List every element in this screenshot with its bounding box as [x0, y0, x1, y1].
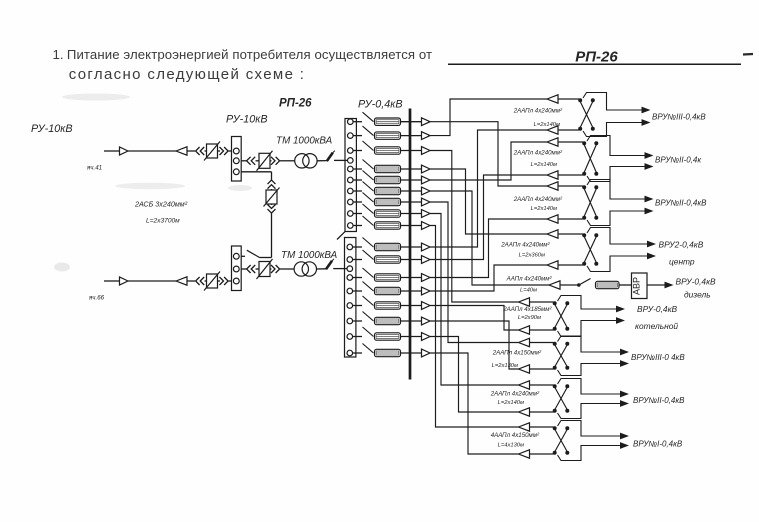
svg-text:РУ-10кВ: РУ-10кВ [31, 123, 73, 135]
label destination 11 [633, 396, 685, 405]
cable end group 4 lower [547, 261, 583, 269]
switch blade group 5 [577, 279, 591, 287]
wire fuse to АВР [619, 284, 632, 286]
arrow flow incoming 2 [120, 277, 129, 285]
svg-text:яч.41: яч.41 [86, 165, 102, 172]
node 0,4kV bus2 feeder 2 [347, 257, 353, 263]
label L=2х3700м [146, 218, 180, 225]
svg-text:2ААПл 4х240мм²: 2ААПл 4х240мм² [513, 108, 563, 115]
label ТМ 1000кВА (transformer T2) [281, 250, 338, 261]
label destination 8 [637, 304, 678, 314]
label cable spec 14 [492, 363, 518, 369]
svg-text:2АСБ 3х240мм²: 2АСБ 3х240мм² [134, 200, 188, 209]
svg-text:ААПл 4х240мм²: ААПл 4х240мм² [506, 276, 553, 283]
node bus1 pin1 [233, 148, 239, 154]
wire tie down [260, 214, 272, 258]
svg-text:ВРУ№II-0,4к: ВРУ№II-0,4к [655, 156, 702, 165]
output hook lower group 2 [587, 167, 645, 182]
wire route feeder 1.3 to group 6A [430, 151, 519, 303]
cable end group 3 upper [547, 182, 583, 190]
section tie 0,4kV blade [337, 231, 345, 239]
main 0,4kV vertical bus bar [409, 109, 412, 380]
label cable spec 5 [513, 196, 563, 203]
wire fuse 2.3 to bus bar [401, 277, 422, 279]
wire fuse 1.3 to bus bar [401, 150, 422, 152]
cable arrow feeder 2.2 [422, 256, 431, 264]
label destination 9 [635, 321, 678, 331]
wire incoming feeder 2 [104, 280, 176, 282]
switch blade feeder 2.7 [353, 327, 374, 337]
label cable spec 16 [498, 400, 524, 406]
cable arrow feeder 2.5 [422, 302, 431, 310]
fuse F1.5 [375, 176, 401, 183]
label РУ-0,4кВ [358, 99, 403, 111]
wire fuse 1.6 to bus bar [401, 190, 422, 192]
cable arrow feeder 1.6 [422, 187, 431, 195]
svg-text:2ААПл 4х240мм²: 2ААПл 4х240мм² [500, 242, 550, 249]
svg-text:4ААПл 4х150мм²: 4ААПл 4х150мм² [491, 432, 540, 439]
svg-text:РУ-10кВ: РУ-10кВ [226, 114, 268, 126]
wire route feeder 2.5 to group 6B [430, 306, 519, 331]
transfer switch X group 9 [553, 426, 570, 455]
output arrow upper group 6 [616, 306, 625, 313]
wire bus1 pin3 to tie [241, 172, 271, 180]
svg-text:АВР: АВР [632, 277, 642, 295]
wire route feeder 2.7 to group 8B [430, 337, 519, 413]
wire switch to bus 0,4kV [334, 159, 348, 161]
cable end group 8 upper [519, 381, 554, 389]
output hook upper group 6 [558, 296, 617, 310]
switch blade feeder 2.8 [353, 344, 374, 354]
wire fuse 2.2 to bus bar [401, 259, 422, 261]
cable arrow feeder 1.5 [422, 176, 431, 184]
scan smudge B [115, 183, 185, 189]
label destination 4 [659, 240, 704, 250]
wire fuse 2.8 to bus bar [401, 352, 422, 354]
svg-text:L=2х140м: L=2х140м [531, 206, 557, 212]
node 0,4kV bus1 feeder 8 [348, 211, 354, 217]
fuse F1.3 [375, 147, 401, 154]
tie disconnect blade [247, 250, 260, 257]
label cable spec 3 [513, 150, 563, 157]
cable end group 7 lower [519, 365, 554, 373]
output hook upper group 2 [587, 136, 645, 156]
node 0,4kV bus1 feeder 7 [348, 199, 354, 205]
wire route feeder 1.5 to group 2A [430, 142, 547, 180]
switch blade feeder 1.1 [353, 112, 373, 122]
breaker Q5 [256, 259, 273, 279]
label РУ-10кВ (incoming) [31, 123, 73, 135]
transfer switch X group 1 [578, 98, 595, 131]
wire fuse 1.1 to bus bar [401, 121, 422, 123]
label destination 1 [652, 113, 706, 122]
label destination 7 [684, 290, 711, 300]
wire route feeder 1.8 to group 8A [430, 214, 519, 386]
bus РУ-0,4кВ section 2 [345, 238, 356, 358]
breaker tie Q3 [264, 188, 280, 207]
node 0,4kV bus1 feeder 1 [348, 119, 354, 125]
svg-text:дизель: дизель [684, 290, 711, 300]
switch blade T1 output [327, 151, 335, 162]
node 0,4kV bus2 feeder 4 [347, 288, 353, 294]
cable arrow feeder 1.7 [422, 198, 431, 206]
node 0,4kV bus2 feeder 3 [347, 275, 353, 281]
node 0,4kV bus2 feeder 1 [347, 244, 353, 250]
fuse F1.6 [375, 187, 401, 194]
switch blade T2 output [326, 259, 334, 270]
transformer T2 ТМ 1000кВА [294, 262, 316, 276]
svg-text:котельной: котельной [635, 321, 678, 331]
bus РУ-10кВ section 1 [232, 137, 242, 182]
drawout contact left Q2 [247, 157, 256, 165]
output hook upper group 4 [587, 228, 647, 245]
label cable spec 4 [531, 162, 557, 168]
drawout contact left Q5 [247, 265, 256, 273]
label cable spec 1 [513, 108, 563, 115]
switch blade feeder 1.4 [353, 160, 373, 170]
svg-text:2ААПл 4х240мм²: 2ААПл 4х240мм² [490, 391, 540, 398]
label destination 12 [633, 440, 683, 449]
cable arrow feeder 1.2 [422, 132, 431, 140]
switch blade feeder 1.5 [353, 171, 373, 181]
label cable spec 15 [490, 391, 540, 398]
fuse F2.6 [375, 317, 401, 324]
output arrow lower group 6 [616, 317, 625, 324]
svg-text:L=2х140м: L=2х140м [531, 162, 557, 168]
svg-text:L=2х140м: L=2х140м [498, 400, 524, 406]
transfer switch X group 2 [582, 141, 598, 176]
output hook lower group 8 [558, 404, 621, 419]
cable arrow feeder 2.7 [422, 333, 431, 341]
cable end W1 [176, 147, 195, 155]
paragraph: problem statement line 2 [69, 66, 306, 83]
wire route feeder 2.6 to group 7B [430, 321, 519, 369]
cable end group 2 upper [547, 138, 583, 146]
svg-text:ВРУ№II-0,4кВ: ВРУ№II-0,4кВ [655, 199, 707, 208]
output hook lower group 6 [558, 321, 617, 337]
label cable spec 8 [519, 253, 545, 259]
wire route feeder 2.8 to group 9B [430, 353, 519, 454]
svg-text:согласно следующей схеме :: согласно следующей схеме : [69, 66, 306, 83]
cable arrow feeder 1.4 [422, 165, 431, 173]
node bus2 pin2 [233, 266, 239, 272]
scan smudge C [54, 263, 70, 272]
output hook upper group 1 [583, 93, 642, 111]
cable arrow feeder 1.9 [422, 222, 431, 230]
cable end W2 [176, 277, 195, 285]
fuse F2.2 [375, 256, 401, 263]
wire АВР to output [647, 284, 665, 286]
output hook upper group 7 [558, 336, 621, 352]
label яч.41 [86, 165, 102, 172]
drawout contact left Q1 [196, 147, 205, 155]
label cable spec 13 [492, 350, 542, 357]
label destination 10 [631, 353, 685, 362]
cable arrow feeder 2.4 [422, 287, 431, 295]
node 0,4kV bus1 feeder 5 [348, 177, 354, 183]
wire bus1 to Q2 [241, 160, 246, 162]
label destination 3 [655, 199, 707, 208]
output arrow lower group 1 [642, 119, 651, 126]
node input T2 on 0,4kV bus2 [347, 266, 353, 272]
title underline [448, 63, 741, 65]
output arrow upper group 3 [645, 196, 654, 203]
node bus2 pin3 [233, 278, 239, 284]
node 0,4kV bus1 feeder 9 [348, 223, 354, 229]
label destination 6 [676, 277, 717, 287]
label destination 2 [655, 156, 702, 165]
wire route feeder 1.6 to group 5S [430, 191, 549, 285]
svg-text:ВРУ№II-0,4кВ: ВРУ№II-0,4кВ [633, 396, 685, 405]
breaker Q4 [204, 272, 220, 291]
wire fuse 2.1 to bus bar [401, 246, 422, 248]
label destination 5 [669, 257, 695, 267]
switch blade feeder 2.4 [353, 282, 374, 292]
transfer switch X group 7 [553, 342, 570, 370]
fuse F1.4 [375, 165, 401, 172]
svg-text:L=2х3700м: L=2х3700м [146, 218, 180, 225]
wire route feeder 1.9 to group 9A [430, 226, 519, 428]
cable arrow feeder 1.8 [422, 210, 431, 218]
wire route feeder 2.3 to group 3B [430, 219, 547, 278]
node input T1 on 0,4kV bus1 [348, 158, 354, 164]
label РП-26 (bus) [279, 98, 312, 110]
svg-text:L=2х360м: L=2х360м [519, 253, 545, 259]
output arrow upper group 2 [645, 152, 654, 159]
output arrow upper group 9 [620, 433, 629, 440]
switch blade feeder 2.5 [353, 296, 374, 306]
cable end group 3 lower [547, 215, 583, 223]
cable arrow feeder 2.1 [422, 243, 431, 251]
node bus2 pin1 [233, 253, 239, 259]
wire fuse 2.7 to bus bar [401, 336, 422, 338]
wire route feeder 2.1 to group 1B [430, 130, 547, 247]
node 0,4kV bus2 feeder 7 [347, 334, 353, 340]
breaker Q1 [204, 142, 220, 161]
title РП-26 [575, 49, 618, 66]
wire incoming feeder 1 [104, 150, 176, 152]
svg-text:РУ-0,4кВ: РУ-0,4кВ [358, 99, 403, 111]
cable arrow feeder 2.3 [422, 274, 431, 282]
wire fuse 1.5 to bus bar [401, 179, 422, 181]
wire bus2 to Q5 [241, 268, 246, 270]
output arrow upper group 4 [647, 241, 656, 248]
svg-text:L=4х130м: L=4х130м [498, 443, 524, 449]
drawout contact bottom tie [268, 205, 276, 214]
svg-text:ВРУ№III-0 4кВ: ВРУ№III-0 4кВ [631, 353, 685, 362]
cable end group 1 upper [547, 95, 579, 103]
fuse F2.1 [375, 243, 401, 250]
АВР box [632, 273, 648, 299]
svg-text:2ААПл 4х185мм²: 2ААПл 4х185мм² [502, 306, 552, 313]
fuse F2.8 [375, 349, 401, 356]
svg-text:ТМ 1000кВА: ТМ 1000кВА [281, 250, 338, 261]
wire route feeder 2.4 to group 4B [430, 265, 547, 291]
label cable spec 12 [518, 315, 541, 321]
paragraph: problem statement line 1 [53, 47, 433, 62]
svg-text:РП-26: РП-26 [279, 98, 312, 110]
switch blade feeder 1.3 [353, 141, 373, 151]
svg-text:2ААПл 4х240мм²: 2ААПл 4х240мм² [513, 196, 563, 203]
wire fuse 2.5 to bus bar [401, 305, 422, 307]
cable end group 1 lower [547, 126, 579, 134]
drawout contact right Q1 [220, 147, 232, 155]
fuse F1.9 [375, 222, 401, 229]
wire route feeder 1.7 to group 7A [430, 202, 519, 343]
transfer switch X group 4 [582, 233, 598, 266]
stray ink mark top right [743, 53, 753, 56]
output arrow lower group 4 [647, 253, 656, 260]
cable arrow feeder 2.8 [422, 349, 431, 357]
drawout contact right Q5 [271, 265, 294, 273]
cable end group 5 [549, 281, 577, 289]
cable end group 6 lower [519, 326, 554, 334]
drawout contact left Q4 [196, 277, 205, 285]
switch blade feeder 1.6 [353, 182, 373, 192]
output arrow lower group 8 [620, 400, 629, 407]
wire fuse 1.2 to bus bar [401, 135, 422, 137]
cable arrow feeder 1.1 [422, 118, 431, 126]
switch blade feeder 1.7 [353, 193, 373, 203]
label cable spec 17 [491, 432, 540, 439]
fuse F1.2 [375, 132, 401, 139]
wire fuse 1.9 to bus bar [401, 225, 422, 227]
svg-text:Питание электроэнергией потреб: Питание электроэнергией потребителя осущ… [67, 47, 432, 62]
svg-text:центр: центр [669, 257, 695, 267]
node bus1 pin3 [233, 169, 239, 175]
svg-text:1.: 1. [53, 47, 64, 62]
svg-text:L=2х130м: L=2х130м [492, 363, 518, 369]
label cable spec 10 [520, 288, 537, 294]
svg-text:2ААПл 4х240мм²: 2ААПл 4х240мм² [513, 150, 563, 157]
switch blade feeder 2.2 [353, 250, 374, 260]
wire route feeder 1.2 to group 1A [430, 99, 547, 136]
transfer switch X group 3 [582, 185, 598, 220]
svg-text:ВРУ№I-0,4кВ: ВРУ№I-0,4кВ [633, 440, 683, 449]
output hook lower group 4 [587, 256, 647, 272]
transfer switch X group 6 [553, 301, 570, 331]
node 0,4kV bus1 feeder 6 [348, 188, 354, 194]
cable end group 4 upper [547, 230, 583, 238]
svg-text:ВРУ№III-0,4кВ: ВРУ№III-0,4кВ [652, 113, 706, 122]
node 0,4kV bus2 feeder 8 [347, 350, 353, 356]
output hook lower group 3 [587, 211, 645, 226]
wire route feeder 1.4 to group 4A [430, 169, 547, 234]
label cable spec 7 [500, 242, 550, 249]
wire route feeder 1.1 to group 3A [430, 122, 547, 186]
output hook upper group 8 [558, 379, 621, 395]
breaker Q2 [256, 151, 273, 171]
fuse F2.4 [375, 287, 401, 294]
output arrow lower group 9 [620, 442, 629, 449]
node 0,4kV bus1 feeder 4 [348, 166, 354, 172]
wire T1 to switch [317, 160, 327, 162]
label cable 2АСБ 3х240мм2 [134, 200, 188, 209]
label яч.66 [88, 295, 105, 302]
switch blade feeder 1.2 [353, 126, 373, 136]
wire fuse 1.8 to bus bar [401, 213, 422, 215]
fuse group 5 [596, 281, 620, 288]
wire tie to bus2 [241, 255, 245, 257]
transfer switch X group 8 [553, 384, 570, 413]
drawout contact right Q4 [220, 277, 232, 285]
wire fuse 2.6 to bus bar [401, 320, 422, 322]
cable arrow feeder 1.3 [422, 147, 431, 155]
wire fuse 1.4 to bus bar [401, 168, 422, 170]
output hook lower group 1 [583, 123, 642, 137]
output arrow upper group 1 [642, 107, 651, 114]
output arrow lower group 7 [620, 360, 629, 367]
fuse F1.1 [375, 118, 401, 125]
node 0,4kV bus2 feeder 5 [347, 303, 353, 309]
output hook upper group 3 [587, 180, 645, 200]
label cable spec 9 [506, 276, 553, 283]
label cable spec 11 [502, 306, 552, 313]
svg-text:ВРУ-0,4кВ: ВРУ-0,4кВ [676, 277, 717, 287]
output arrow lower group 3 [645, 208, 654, 215]
fuse F1.7 [375, 198, 401, 205]
drawout contact right Q2 [271, 157, 295, 165]
svg-text:L=40м: L=40м [520, 288, 537, 294]
transformer T1 ТМ 1000кВА [295, 154, 317, 168]
node 0,4kV bus1 feeder 3 [348, 148, 354, 154]
switch blade feeder 2.1 [353, 238, 374, 248]
svg-text:2ААПл 4х150мм²: 2ААПл 4х150мм² [492, 350, 542, 357]
cable end group 6 upper [519, 298, 554, 306]
fuse F2.5 [375, 302, 401, 309]
svg-text:L=2х140м: L=2х140м [534, 122, 560, 128]
output arrow group 5 [665, 282, 674, 289]
output hook upper group 9 [558, 421, 621, 437]
wire switch to bus2 0,4kV [333, 268, 346, 270]
bus РУ-0,4кВ section 1 [345, 119, 356, 232]
fuse F2.3 [375, 274, 401, 281]
wire fuse 1.7 to bus bar [401, 201, 422, 203]
cable end group 2 lower [547, 171, 583, 179]
label cable spec 6 [531, 206, 557, 212]
node 0,4kV bus2 feeder 6 [347, 318, 353, 324]
label cable spec 2 [534, 122, 560, 128]
svg-text:ВРУ2-0,4кВ: ВРУ2-0,4кВ [659, 240, 704, 250]
output hook lower group 7 [558, 364, 621, 376]
switch blade feeder 1.9 [353, 216, 373, 226]
switch blade feeder 2.3 [353, 268, 374, 278]
cable end group 7 upper [519, 338, 554, 346]
switch blade feeder 2.6 [353, 312, 374, 322]
svg-text:РП-26: РП-26 [575, 49, 618, 66]
node 0,4kV bus1 feeder 2 [348, 133, 354, 139]
wire route feeder 2.2 to group 2B [430, 175, 547, 260]
arrow flow incoming 1 [120, 147, 129, 155]
cable arrow feeder 2.6 [422, 317, 431, 325]
switch blade feeder 1.8 [353, 204, 373, 214]
svg-text:L=2х90м: L=2х90м [518, 315, 541, 321]
svg-text:ТМ 1000кВА: ТМ 1000кВА [276, 136, 333, 147]
output hook lower group 9 [558, 446, 621, 461]
label ТМ 1000кВА (transformer T1) [276, 136, 333, 147]
svg-text:яч.66: яч.66 [88, 295, 105, 302]
fuse F1.8 [375, 210, 401, 217]
label РУ-10кВ (bus) [226, 114, 268, 126]
drawout contact top tie [268, 180, 276, 189]
label cable spec 18 [498, 443, 524, 449]
output arrow upper group 7 [620, 349, 629, 356]
cable end group 9 lower [519, 450, 554, 458]
bus РУ-10кВ section 2 [232, 246, 242, 291]
scan smudge A [62, 94, 252, 192]
svg-text:ВРУ-0,4кВ: ВРУ-0,4кВ [637, 304, 678, 314]
node bus1 pin2 [233, 158, 239, 164]
